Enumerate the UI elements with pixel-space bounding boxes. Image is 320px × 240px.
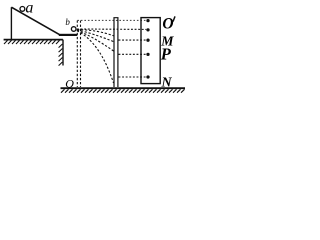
trajectory T3 [77, 30, 114, 51]
incline surface [11, 7, 59, 34]
ball a [20, 6, 25, 11]
svg-text:b: b [65, 17, 70, 27]
N dotted line [119, 76, 147, 78]
left wall of incline [10, 7, 12, 39]
cliff edge / table leg [62, 40, 64, 66]
trajectory T1 [77, 30, 114, 37]
P dotted line [119, 53, 147, 55]
dot P on board edge [146, 53, 149, 56]
dot level-2 on board edge [146, 28, 149, 31]
table edge dashed vertical 2 [80, 21, 82, 88]
table top slab [59, 34, 77, 36]
svg-text:P: P [160, 44, 172, 63]
ball b [71, 27, 76, 32]
dot N on board edge [146, 75, 149, 78]
lower ground hatching [61, 89, 185, 92]
dot M on board edge [146, 39, 149, 42]
table edge dashed vertical 1 [76, 21, 78, 88]
O-prime height dotted line [77, 19, 146, 21]
trajectory T2 [77, 30, 114, 42]
lower ground line [61, 87, 186, 89]
svg-text:N: N [161, 75, 173, 90]
svg-text:a: a [25, 0, 33, 16]
b-level height dotted line [77, 28, 146, 30]
cliff hatching [59, 44, 63, 66]
svg-text:O: O [162, 15, 173, 32]
prime mark of O-prime [173, 16, 175, 21]
M dotted line [119, 39, 147, 41]
right target board rectangle [141, 18, 160, 84]
dot O-prime on board edge [146, 19, 149, 22]
upper ground line [4, 39, 63, 41]
svg-text:O: O [65, 77, 74, 91]
vertical screen board [114, 18, 118, 87]
trajectory T4 [77, 31, 114, 83]
upper ground hatching [4, 40, 60, 44]
